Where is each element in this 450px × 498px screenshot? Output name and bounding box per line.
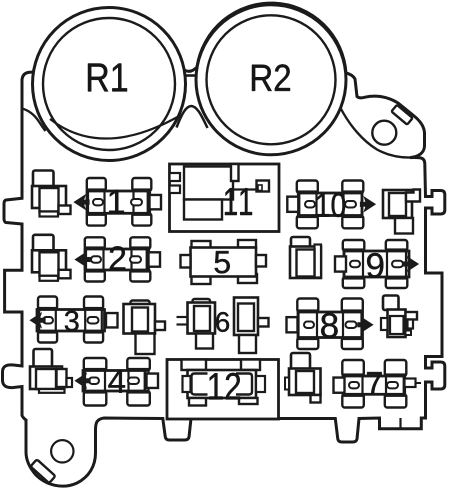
connector row3 b with pins: [177, 299, 216, 349]
connector row3 a: [124, 301, 166, 355]
connector row4 mid: [285, 353, 321, 403]
connector row3 c: [234, 298, 269, 354]
relay R1 bottom crescent: [50, 115, 181, 139]
relay R2: [196, 5, 346, 155]
slot on top-right ear: [391, 105, 412, 125]
slot on bottom-left tab: [30, 459, 55, 483]
fuse 7 side extension: [405, 379, 422, 388]
web bar between relays: [184, 74, 199, 77]
fuse 5: [181, 240, 267, 284]
valley collar between relays: [177, 106, 208, 128]
fuse F8: [287, 299, 373, 350]
connector row2 right: [290, 237, 321, 278]
fuse F2: [76, 237, 161, 281]
connector row2 left: [32, 235, 71, 281]
connector row3 right: [381, 296, 417, 338]
connector row4 left: [30, 349, 72, 393]
fuse F4: [76, 358, 159, 406]
right bottom bar divider: [399, 418, 401, 429]
collar fillet right of R2 to ear: [341, 108, 411, 158]
mounting hole top-right: [372, 121, 396, 145]
fuse F1: [75, 178, 162, 226]
label 6: [216, 312, 229, 332]
mounting hole bottom-left: [51, 440, 73, 462]
fuse F3: [31, 297, 118, 343]
relay R1: [33, 8, 186, 161]
collar fillet left of R1: [22, 109, 46, 132]
relay box 12: [167, 360, 279, 420]
fuse 12: [183, 370, 266, 406]
fuse F10: [287, 181, 375, 229]
connector row1 right: [383, 190, 420, 234]
fuse F9: [335, 240, 418, 288]
relay box 11: [170, 164, 280, 232]
fuse F7: [334, 360, 407, 408]
connector row1 left: [32, 171, 71, 217]
